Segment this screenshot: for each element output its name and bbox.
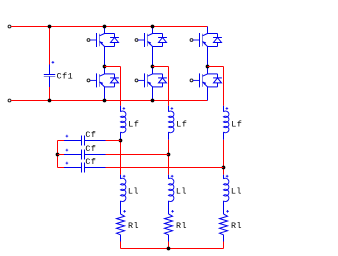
polarity mark Lf phase 3 — [226, 107, 229, 110]
diode anode lead — [217, 43, 219, 47]
diode cathode lead — [162, 74, 164, 78]
bottom corner from diode — [153, 46, 163, 48]
emitter lead — [104, 47, 106, 67]
top corner to diode — [208, 33, 218, 35]
diode triangle — [214, 78, 222, 83]
wire: phase 2 Lf to Ll — [168, 140, 170, 175]
wire: top dc rail — [11, 26, 207, 28]
inductor Ll (phase 1) — [121, 178, 126, 201]
svg-text:Cf1: Cf1 — [57, 72, 74, 82]
collector lead — [152, 67, 154, 74]
resistor Rl (phase 1) bottom lead — [120, 235, 122, 242]
collector lead — [207, 67, 209, 74]
wire: Cf star bus vertical — [57, 141, 59, 168]
polarity mark Rl phase 2 — [171, 210, 174, 213]
polarity mark Rl phase 3 — [226, 210, 229, 213]
wire: phase 3 drop to filter — [223, 67, 225, 106]
emitter diagonal with arrow — [203, 82, 208, 87]
polarity mark Lf phase 1 — [123, 107, 126, 110]
wire: phase 2 drop to filter — [168, 67, 170, 106]
polarity mark Cf row 2 — [66, 149, 69, 152]
diode anode lead — [114, 83, 116, 87]
IGBT Q5 (phase 3 high side) — [190, 27, 222, 67]
inductor Ll (phase 2) bottom lead — [168, 201, 170, 214]
gate terminal circle — [135, 79, 138, 82]
input terminal - (bottom left) — [8, 99, 11, 102]
gate bar — [144, 33, 146, 47]
gate bar — [144, 73, 146, 87]
gate bar — [96, 33, 98, 47]
capacitor Cf1 top plate — [44, 74, 55, 76]
capacitor Cf (row 3) left lead — [64, 167, 82, 169]
wire: load neutral bus — [121, 248, 224, 250]
inductor Ll (phase 1) bottom lead — [120, 201, 122, 214]
gate terminal circle — [190, 39, 193, 42]
diode anode lead — [162, 43, 164, 47]
diode anode lead — [114, 43, 116, 47]
inductor Lf (phase 1) bottom lead — [120, 132, 122, 140]
bottom corner from diode — [208, 46, 218, 48]
collector diagonal — [100, 74, 105, 76]
emitter diagonal with arrow — [100, 82, 105, 87]
capacitor Cf (row 2) left plate — [81, 150, 83, 160]
junction Cf row 3 to phase 3 — [222, 166, 226, 170]
diode cathode bar — [110, 77, 119, 79]
collector diagonal — [100, 34, 105, 36]
body bar — [202, 34, 204, 47]
resistor Rl (phase 2) bottom lead — [168, 235, 170, 242]
inductor Lf (phase 2) — [169, 111, 174, 133]
svg-text:Ll: Ll — [231, 187, 242, 197]
resistor Rl (phase 1) — [117, 214, 125, 235]
gate stub — [90, 39, 96, 41]
capacitor Cf (row 1) right lead — [85, 140, 106, 142]
wire: Cf row 1 right to phase — [106, 140, 121, 142]
diode cathode bar — [158, 37, 167, 39]
collector diagonal — [203, 74, 208, 76]
gate stub — [138, 79, 144, 81]
inductor Ll (phase 3) bottom lead — [223, 201, 225, 214]
capacitor Cf1 bottom plate — [44, 76, 55, 78]
IGBT Q2 (phase 1 low side) — [87, 67, 119, 101]
wire: phase 1 to neutral bus — [120, 242, 122, 249]
diode cathode bar — [213, 77, 222, 79]
body bar — [147, 34, 149, 47]
capacitor Cf (row 3) right lead — [85, 167, 106, 169]
diode cathode lead — [217, 34, 219, 38]
collector diagonal — [148, 74, 153, 76]
svg-text:Cf: Cf — [85, 157, 96, 167]
node phase 3 midpoint — [206, 65, 210, 69]
capacitor Cf (row 2) right plate — [84, 150, 86, 160]
diode cathode lead — [217, 74, 219, 78]
wire: phase 3 tap horizontal — [208, 66, 224, 68]
emitter lead — [152, 47, 154, 67]
resistor Rl (phase 3) — [220, 214, 228, 235]
junction dc-link bottom — [48, 99, 52, 103]
diode triangle — [214, 38, 222, 43]
wire: phase 3 Lf to Ll — [223, 140, 225, 175]
svg-text:Cf: Cf — [85, 144, 96, 154]
inductor Lf (phase 2) top lead — [168, 106, 170, 112]
emitter lead — [207, 87, 209, 101]
wire: phase 1 tap horizontal — [105, 66, 121, 68]
IGBT Q6 (phase 3 low side) — [190, 67, 222, 101]
wire: Cf row 2 left — [58, 154, 65, 156]
top corner to diode — [153, 73, 163, 75]
gate bar — [199, 33, 201, 47]
junction neutral bus phase 2 — [167, 247, 171, 251]
resistor Rl (phase 3) bottom lead — [223, 235, 225, 242]
diode cathode bar — [158, 77, 167, 79]
top corner to diode — [105, 33, 115, 35]
capacitor Cf (row 2) right lead — [85, 154, 106, 156]
diode anode lead — [217, 83, 219, 87]
node phase 1 midpoint — [103, 65, 107, 69]
emitter lead — [152, 87, 154, 101]
polarity mark Cf1 — [52, 61, 55, 64]
svg-text:Ll: Ll — [176, 187, 187, 197]
emitter diagonal with arrow — [203, 42, 208, 47]
polarity mark Ll phase 2 — [171, 175, 174, 178]
inductor Ll (phase 2) top lead — [168, 175, 170, 179]
junction top rail col 1 — [103, 25, 107, 29]
inductor Lf (phase 3) bottom lead — [223, 132, 225, 140]
IGBT Q4 (phase 2 low side) — [135, 67, 167, 101]
capacitor Cf (row 1) left plate — [81, 136, 83, 146]
IGBT Q3 (phase 2 high side) — [135, 27, 167, 67]
bottom corner from diode — [105, 46, 115, 48]
junction top rail col 2 — [151, 25, 155, 29]
diode triangle — [111, 78, 119, 83]
diode cathode lead — [114, 34, 116, 38]
top corner to diode — [208, 73, 218, 75]
emitter diagonal with arrow — [100, 42, 105, 47]
capacitor Cf (row 3) right plate — [84, 163, 86, 173]
wire: bottom dc rail — [11, 100, 207, 102]
collector lead — [207, 27, 209, 34]
wire: Cf row 3 right to phase — [106, 167, 224, 169]
body bar — [99, 34, 101, 47]
emitter diagonal with arrow — [148, 42, 153, 47]
collector lead — [104, 27, 106, 34]
junction dc-link top — [48, 25, 52, 29]
gate terminal circle — [87, 79, 90, 82]
gate stub — [90, 79, 96, 81]
wire: phase 2 tap horizontal — [153, 66, 169, 68]
polarity mark Cf row 3 — [66, 162, 69, 165]
wire: phase 1 Lf to Ll — [120, 140, 122, 175]
emitter lead — [207, 47, 209, 67]
body bar — [147, 74, 149, 87]
emitter lead — [104, 87, 106, 101]
node phase 2 midpoint — [151, 65, 155, 69]
resistor Rl (phase 2) — [165, 214, 173, 235]
diode cathode bar — [110, 37, 119, 39]
diode cathode lead — [162, 34, 164, 38]
svg-text:Ll: Ll — [128, 187, 139, 197]
input terminal + (top left) — [8, 25, 11, 28]
bottom corner from diode — [105, 86, 115, 88]
inductor Lf (phase 3) — [224, 111, 229, 133]
polarity mark Ll phase 1 — [123, 175, 126, 178]
diode triangle — [159, 78, 167, 83]
IGBT Q1 (phase 1 high side) — [87, 27, 119, 67]
wire: phase 1 drop to filter — [120, 67, 122, 106]
body bar — [99, 74, 101, 87]
wire: dc-link drop upper — [49, 27, 51, 65]
bottom corner from diode — [153, 86, 163, 88]
gate stub — [193, 39, 199, 41]
inductor Lf (phase 3) top lead — [223, 106, 225, 112]
collector diagonal — [203, 34, 208, 36]
collector lead — [104, 67, 106, 74]
diode cathode lead — [114, 74, 116, 78]
diode triangle — [159, 38, 167, 43]
capacitor Cf (row 1) right plate — [84, 136, 86, 146]
capacitor Cf (row 3) left plate — [81, 163, 83, 173]
polarity mark Ll phase 3 — [226, 175, 229, 178]
inductor Ll (phase 3) top lead — [223, 175, 225, 179]
wire: dc-link drop lower — [49, 87, 51, 101]
gate terminal circle — [190, 79, 193, 82]
gate stub — [193, 79, 199, 81]
svg-text:Lf: Lf — [231, 120, 242, 130]
body bar — [202, 74, 204, 87]
junction bottom rail col 1 — [103, 99, 107, 103]
gate terminal circle — [87, 39, 90, 42]
junction bottom rail col 2 — [151, 99, 155, 103]
junction Cf row 2 to phase 2 — [167, 153, 171, 157]
gate bar — [96, 73, 98, 87]
inductor Ll (phase 3) — [224, 178, 229, 201]
svg-text:Rl: Rl — [176, 221, 187, 231]
diode triangle — [111, 38, 119, 43]
capacitor Cf (row 1) left lead — [64, 140, 82, 142]
polarity mark Cf row 1 — [66, 135, 69, 138]
inductor Ll (phase 2) — [169, 178, 174, 201]
polarity mark Rl phase 1 — [123, 210, 126, 213]
svg-text:Lf: Lf — [176, 120, 187, 130]
inductor Lf (phase 1) — [121, 111, 126, 133]
capacitor Cf (row 2) left lead — [64, 154, 82, 156]
inductor Ll (phase 1) top lead — [120, 175, 122, 179]
bottom corner from diode — [208, 86, 218, 88]
diode cathode bar — [213, 37, 222, 39]
wire: Cf row 1 left — [58, 140, 65, 142]
polarity mark Lf phase 2 — [171, 107, 174, 110]
wire: Cf row 3 left — [58, 167, 65, 169]
diode anode lead — [162, 83, 164, 87]
svg-text:Cf: Cf — [85, 130, 96, 140]
gate terminal circle — [135, 39, 138, 42]
wire: phase 3 to neutral bus — [223, 242, 225, 249]
gate bar — [199, 73, 201, 87]
collector lead — [152, 27, 154, 34]
wire: Cf row 2 right to phase — [106, 154, 169, 156]
capacitor Cf1 bottom lead — [49, 77, 51, 88]
inductor Lf (phase 1) top lead — [120, 106, 122, 112]
svg-text:Rl: Rl — [231, 221, 242, 231]
svg-text:Rl: Rl — [128, 221, 139, 231]
emitter diagonal with arrow — [148, 82, 153, 87]
junction Cf row 1 to phase 1 — [119, 139, 123, 143]
gate stub — [138, 39, 144, 41]
top corner to diode — [153, 33, 163, 35]
inductor Lf (phase 2) bottom lead — [168, 132, 170, 140]
svg-text:Lf: Lf — [128, 120, 139, 130]
top corner to diode — [105, 73, 115, 75]
capacitor Cf1 top lead — [49, 65, 51, 75]
junction Cf star bus — [56, 153, 60, 157]
wire: phase 2 to neutral bus — [168, 242, 170, 249]
collector diagonal — [148, 34, 153, 36]
